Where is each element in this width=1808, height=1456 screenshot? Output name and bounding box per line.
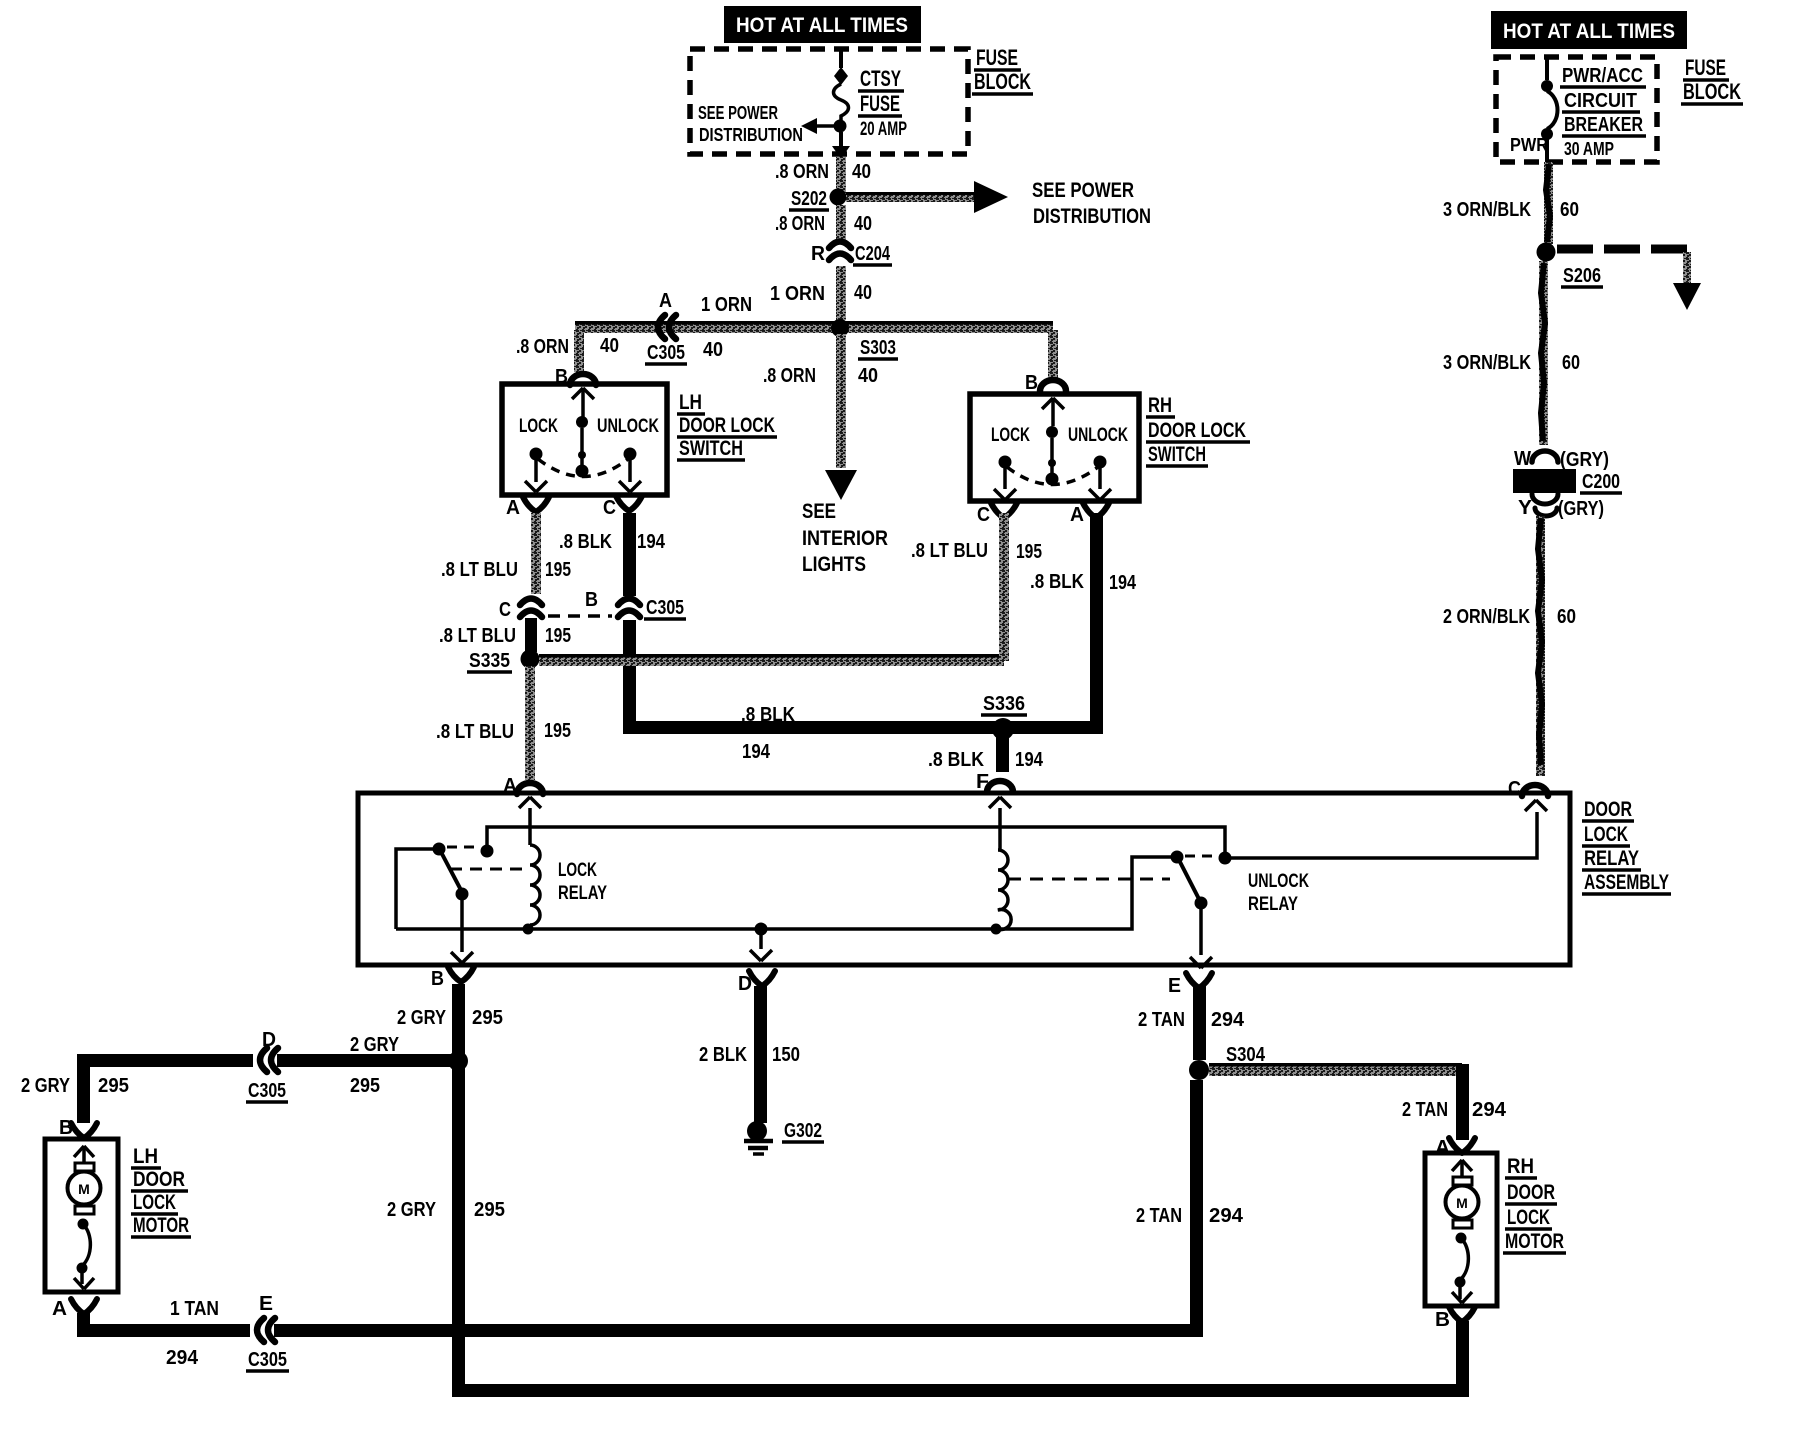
label: LH DOOR LOCK MOTOR bbox=[131, 1145, 191, 1237]
svg-text:40: 40 bbox=[600, 335, 619, 357]
svg-text:2 GRY: 2 GRY bbox=[21, 1075, 71, 1097]
label: RH DOOR LOCK MOTOR bbox=[1503, 1155, 1566, 1253]
fuse block (right) dashed enclosure bbox=[1496, 57, 1657, 162]
svg-text:C305: C305 bbox=[248, 1080, 286, 1102]
svg-text:FUSE: FUSE bbox=[1685, 55, 1726, 80]
svg-text:W: W bbox=[1514, 448, 1531, 470]
wire 2 ORN/BLK 60 (C200 to relay C) bbox=[1443, 516, 1576, 776]
arrow SEE INTERIOR LIGHTS bbox=[802, 470, 888, 576]
label: LOCK RELAY bbox=[558, 860, 607, 904]
svg-text:RH: RH bbox=[1148, 394, 1172, 417]
relay pin D internal arrow bbox=[750, 929, 772, 961]
svg-text:295: 295 bbox=[474, 1199, 505, 1221]
svg-text:B: B bbox=[1025, 372, 1038, 394]
svg-text:.8 LT BLU: .8 LT BLU bbox=[439, 625, 516, 647]
svg-text:295: 295 bbox=[350, 1075, 380, 1097]
connector C204 pin R bbox=[811, 242, 892, 266]
wire 1 TAN 294 (LH motor A to C305) bbox=[77, 1298, 1203, 1369]
label: PWR/ACC CIRCUIT BREAKER 30 AMP bbox=[1560, 65, 1646, 159]
lock relay dashed actuator link bbox=[450, 868, 523, 871]
svg-text:194: 194 bbox=[1015, 749, 1044, 771]
svg-text:C305: C305 bbox=[248, 1349, 287, 1371]
wire 2 GRY bottom run (to RH motor B) bbox=[452, 1384, 1469, 1397]
svg-text:RH: RH bbox=[1507, 1155, 1534, 1178]
svg-text:3 ORN/BLK: 3 ORN/BLK bbox=[1443, 199, 1531, 221]
label: LOCK (LH switch) bbox=[519, 416, 558, 437]
svg-text:295: 295 bbox=[98, 1075, 129, 1097]
wire 1 ORN 40 horizontal bus (C305-A to S303 to RH switch) bbox=[575, 290, 1053, 361]
svg-text:S335: S335 bbox=[469, 650, 510, 672]
relay pin E connector bbox=[1168, 973, 1212, 997]
svg-text:C: C bbox=[977, 504, 990, 526]
svg-text:G302: G302 bbox=[784, 1120, 822, 1142]
svg-text:2 TAN: 2 TAN bbox=[1402, 1099, 1448, 1121]
LH switch pin A connector bbox=[506, 497, 549, 519]
label: UNLOCK (RH switch) bbox=[1068, 425, 1128, 446]
connector C200 pin W bbox=[1514, 448, 1609, 471]
RH switch internal common arm bbox=[1042, 398, 1064, 486]
svg-text:30 AMP: 30 AMP bbox=[1564, 139, 1614, 159]
wire 2 GRY 295 (relay B down) bbox=[397, 984, 503, 1396]
svg-text:S202: S202 bbox=[791, 188, 827, 210]
svg-text:C: C bbox=[499, 599, 511, 621]
LH motor symbol bbox=[68, 1146, 101, 1289]
wire .8 BLK 194 (S336 to relay F) bbox=[928, 734, 1044, 772]
svg-text:2 BLK: 2 BLK bbox=[699, 1044, 747, 1066]
svg-text:(GRY): (GRY) bbox=[1558, 498, 1604, 520]
RH switch lock contact and arrow to pin C bbox=[994, 456, 1016, 501]
svg-text:B: B bbox=[585, 589, 598, 611]
svg-text:2 GRY: 2 GRY bbox=[350, 1034, 400, 1056]
wire 2 GRY 295 horizontal (to LH motor B) bbox=[77, 1034, 458, 1097]
connector C200 body bbox=[1513, 469, 1622, 493]
connector C305 pin A (on 1 ORN bus) bbox=[645, 315, 687, 364]
svg-text:2 GRY: 2 GRY bbox=[387, 1199, 437, 1221]
label: LH DOOR LOCK SWITCH bbox=[677, 391, 777, 460]
relay pin F connector bbox=[976, 771, 1013, 808]
svg-text:294: 294 bbox=[1209, 1205, 1244, 1227]
svg-text:SWITCH: SWITCH bbox=[1148, 443, 1206, 466]
wire .8 LT BLU 195 (C305 to S335) bbox=[439, 618, 571, 652]
LH door lock switch box bbox=[502, 384, 667, 495]
label: HOT AT ALL TIMES (left feed) bbox=[724, 6, 921, 43]
arrow from S206 to power distribution bbox=[1557, 249, 1701, 310]
svg-text:RELAY: RELAY bbox=[1584, 847, 1639, 870]
fuse block (left) dashed enclosure bbox=[690, 49, 968, 154]
wire 2 GRY 295 (drop to LH motor B) bbox=[21, 1060, 129, 1123]
svg-text:PWR: PWR bbox=[1510, 135, 1548, 155]
svg-text:MOTOR: MOTOR bbox=[1505, 1230, 1564, 1253]
svg-text:1 TAN: 1 TAN bbox=[170, 1298, 219, 1320]
label: FUSE BLOCK (left) bbox=[972, 45, 1033, 94]
wire .8 BLK 194 (RH switch A drop) bbox=[1030, 513, 1137, 734]
svg-text:HOT AT ALL TIMES: HOT AT ALL TIMES bbox=[736, 14, 908, 37]
wire .8 ORN 40 (S303 down to interior lights) bbox=[763, 334, 878, 468]
svg-text:RELAY: RELAY bbox=[558, 883, 607, 904]
LH switch lock contact and arrow to pin A bbox=[525, 448, 547, 493]
svg-text:195: 195 bbox=[545, 559, 571, 581]
svg-text:UNLOCK: UNLOCK bbox=[1248, 871, 1309, 892]
svg-text:DISTRIBUTION: DISTRIBUTION bbox=[699, 125, 803, 145]
svg-text:B: B bbox=[1435, 1309, 1450, 1331]
connector C305 pin E (tan) bbox=[246, 1293, 289, 1371]
svg-text:S336: S336 bbox=[983, 693, 1025, 715]
junction 2 GRY branch bbox=[448, 1051, 468, 1071]
svg-text:LOCK: LOCK bbox=[991, 425, 1030, 446]
fuse CTSY FUSE 20 AMP symbol bbox=[832, 51, 850, 159]
label: UNLOCK (LH switch) bbox=[597, 416, 659, 437]
svg-text:LH: LH bbox=[679, 391, 702, 414]
wire .8 ORN 40 (left drop to LH switch B) bbox=[516, 330, 619, 372]
C305 dashed connector tie line bbox=[548, 614, 612, 618]
connector C305 pin C (lt blu) bbox=[499, 599, 542, 622]
wire 2 TAN 294 (relay E to S304) bbox=[1138, 986, 1245, 1060]
svg-text:A: A bbox=[1070, 504, 1084, 526]
connector C200 pin Y bbox=[1518, 494, 1604, 520]
svg-text:SEE POWER: SEE POWER bbox=[1032, 179, 1134, 202]
label: PWR bbox=[1510, 135, 1548, 155]
svg-text:195: 195 bbox=[545, 625, 571, 647]
wire .8 LT BLU (S335 to RH switch C) horizontal bbox=[539, 654, 1004, 666]
svg-text:.8 ORN: .8 ORN bbox=[516, 336, 569, 358]
RH switch pin C connector bbox=[977, 503, 1017, 526]
label: UNLOCK RELAY bbox=[1248, 871, 1309, 915]
RH motor pin B connector bbox=[1435, 1307, 1475, 1331]
wire 3 ORN/BLK 60 (S206 to C200) bbox=[1443, 261, 1580, 445]
label: HOT AT ALL TIMES (right feed) bbox=[1491, 11, 1687, 49]
ground G302 bbox=[744, 1120, 824, 1154]
svg-text:40: 40 bbox=[854, 282, 872, 304]
svg-text:UNLOCK: UNLOCK bbox=[1068, 425, 1128, 446]
svg-text:RELAY: RELAY bbox=[1248, 894, 1298, 915]
LH motor pin B connector bbox=[59, 1117, 97, 1139]
relay pin C connector bbox=[1508, 778, 1548, 811]
svg-text:C305: C305 bbox=[647, 342, 685, 364]
svg-text:C200: C200 bbox=[1582, 471, 1620, 493]
label: DOOR LOCK RELAY ASSEMBLY bbox=[1582, 798, 1671, 894]
svg-text:C204: C204 bbox=[855, 243, 891, 265]
svg-text:1 ORN: 1 ORN bbox=[701, 294, 752, 316]
svg-text:3 ORN/BLK: 3 ORN/BLK bbox=[1443, 352, 1531, 374]
svg-text:60: 60 bbox=[1562, 352, 1580, 374]
connector C305 pin B (blk) bbox=[585, 589, 686, 620]
svg-text:40: 40 bbox=[703, 339, 723, 361]
wire .8 LT BLU 195 (S335 to relay A) bbox=[436, 666, 571, 780]
svg-text:BLOCK: BLOCK bbox=[974, 69, 1031, 94]
svg-text:1 ORN: 1 ORN bbox=[770, 283, 825, 305]
RH motor pin A connector bbox=[1435, 1137, 1475, 1159]
svg-text:150: 150 bbox=[772, 1044, 800, 1066]
svg-text:60: 60 bbox=[1557, 606, 1576, 628]
svg-text:A: A bbox=[659, 290, 672, 312]
svg-text:LOCK: LOCK bbox=[558, 860, 597, 881]
lock relay dashed contact gap bbox=[447, 846, 481, 849]
wire 2 TAN 294 (S304 down to 1 TAN run) bbox=[1136, 1080, 1244, 1337]
splice S206 bbox=[1537, 243, 1604, 288]
svg-text:LOCK: LOCK bbox=[519, 416, 558, 437]
svg-text:195: 195 bbox=[544, 720, 571, 742]
svg-text:MOTOR: MOTOR bbox=[133, 1214, 189, 1237]
unlock relay dashed contact gap bbox=[1185, 855, 1217, 858]
svg-text:DOOR LOCK: DOOR LOCK bbox=[679, 414, 775, 437]
LH motor pin A connector bbox=[52, 1298, 97, 1320]
svg-text:.8 ORN: .8 ORN bbox=[775, 161, 829, 183]
wire .8 ORN 40 (right drop to RH switch B) bbox=[1048, 330, 1058, 378]
svg-text:2 ORN/BLK: 2 ORN/BLK bbox=[1443, 606, 1530, 628]
label: FUSE BLOCK (right) bbox=[1681, 55, 1743, 104]
svg-text:FUSE: FUSE bbox=[860, 91, 900, 116]
lock relay coil (pin A to ground rail) bbox=[530, 808, 540, 929]
splice S304 bbox=[1189, 1044, 1267, 1080]
svg-text:294: 294 bbox=[1211, 1009, 1245, 1031]
svg-text:UNLOCK: UNLOCK bbox=[597, 416, 659, 437]
svg-text:ASSEMBLY: ASSEMBLY bbox=[1584, 871, 1669, 894]
svg-text:2 TAN: 2 TAN bbox=[1136, 1205, 1182, 1227]
unlock relay coil (pin F to ground rail) bbox=[998, 808, 1011, 930]
svg-text:DOOR: DOOR bbox=[1507, 1181, 1555, 1204]
svg-text:BLOCK: BLOCK bbox=[1683, 79, 1741, 104]
RH switch unlock contact and arrow to pin A bbox=[1089, 456, 1111, 501]
svg-text:C: C bbox=[603, 497, 616, 519]
svg-text:HOT AT ALL TIMES: HOT AT ALL TIMES bbox=[1503, 20, 1675, 43]
svg-text:LIGHTS: LIGHTS bbox=[802, 553, 866, 576]
RH door lock switch pin B connector bbox=[1025, 372, 1066, 394]
svg-text:.8 BLK: .8 BLK bbox=[741, 704, 795, 726]
svg-text:CTSY: CTSY bbox=[860, 66, 901, 91]
svg-text:.8 BLK: .8 BLK bbox=[1030, 571, 1084, 593]
svg-text:SEE: SEE bbox=[802, 500, 836, 523]
svg-text:60: 60 bbox=[1560, 199, 1579, 221]
relay internal ground rail bbox=[396, 849, 1171, 936]
LH switch pin C connector bbox=[603, 496, 642, 519]
svg-text:SEE POWER: SEE POWER bbox=[698, 103, 778, 123]
relay internal feed line (contacts to pin C) bbox=[481, 812, 1538, 865]
wire .8 ORN 40 (fuse to S202) bbox=[775, 157, 871, 193]
wire .8 BLK 194 horizontal (to S336) bbox=[623, 704, 1103, 763]
svg-text:40: 40 bbox=[854, 213, 872, 235]
LH switch internal common arm bbox=[572, 388, 594, 478]
label: SEE POWER DISTRIBUTION (in fuse block) bbox=[698, 103, 803, 145]
relay pin B connector bbox=[431, 967, 474, 990]
svg-text:194: 194 bbox=[742, 741, 771, 763]
svg-text:A: A bbox=[506, 497, 520, 519]
wire 2 BLK 150 (relay D to ground) bbox=[699, 986, 800, 1123]
svg-text:DOOR: DOOR bbox=[1584, 798, 1632, 821]
RH switch pin A connector bbox=[1070, 503, 1109, 526]
svg-text:.8 LT BLU: .8 LT BLU bbox=[436, 721, 514, 743]
svg-text:295: 295 bbox=[472, 1007, 503, 1029]
svg-text:M: M bbox=[1456, 1195, 1468, 1211]
svg-text:INTERIOR: INTERIOR bbox=[802, 527, 888, 550]
wire .8 ORN 40 (S202 to C204) bbox=[775, 205, 872, 243]
svg-text:S206: S206 bbox=[1563, 265, 1601, 287]
RH door lock motor box bbox=[1425, 1153, 1497, 1306]
svg-text:.8 ORN: .8 ORN bbox=[763, 365, 816, 387]
svg-text:S303: S303 bbox=[860, 337, 896, 359]
svg-text:R: R bbox=[811, 243, 826, 265]
svg-text:S304: S304 bbox=[1226, 1044, 1266, 1066]
splice S335 bbox=[467, 650, 540, 673]
door lock relay assembly box bbox=[358, 793, 1570, 965]
splice S336 bbox=[981, 693, 1027, 740]
label: LOCK (RH switch) bbox=[991, 425, 1030, 446]
svg-text:C305: C305 bbox=[646, 597, 684, 619]
svg-text:294: 294 bbox=[1472, 1099, 1507, 1121]
svg-text:LH: LH bbox=[133, 1145, 158, 1168]
LH switch dashed travel arc bbox=[538, 459, 628, 477]
svg-text:LOCK: LOCK bbox=[133, 1191, 176, 1214]
svg-text:SWITCH: SWITCH bbox=[679, 437, 743, 460]
label: CTSY FUSE 20 AMP bbox=[858, 66, 907, 140]
svg-text:194: 194 bbox=[1109, 572, 1137, 594]
LH door lock switch pin B connector bbox=[555, 366, 596, 388]
svg-text:DOOR: DOOR bbox=[133, 1168, 185, 1191]
wire arrow to see power distribution (right of S202) bbox=[846, 179, 1151, 228]
LH switch unlock contact and arrow to pin C bbox=[619, 448, 641, 493]
RH door lock switch box bbox=[970, 394, 1139, 501]
svg-text:194: 194 bbox=[637, 531, 666, 553]
wire 2 GRY 295 (junction down to bottom run) bbox=[387, 1199, 505, 1221]
svg-text:FUSE: FUSE bbox=[976, 45, 1018, 70]
svg-text:BREAKER: BREAKER bbox=[1564, 114, 1643, 136]
LH door lock motor box bbox=[45, 1139, 118, 1292]
splice S303 bbox=[831, 319, 898, 359]
unlock relay armature switch bbox=[1171, 851, 1213, 969]
svg-text:DOOR LOCK: DOOR LOCK bbox=[1148, 419, 1246, 442]
svg-text:E: E bbox=[1168, 975, 1181, 997]
relay pin D connector bbox=[738, 971, 775, 995]
wire 2 TAN 294 (S304 to RH motor A) bbox=[1209, 1063, 1507, 1140]
svg-text:A: A bbox=[52, 1298, 67, 1320]
svg-text:B: B bbox=[431, 968, 444, 990]
lock relay armature switch bbox=[433, 843, 474, 964]
connector C305 pin D (2 GRY) bbox=[246, 1029, 288, 1102]
wire .8 LT BLU 195 (LH switch A to C305) bbox=[441, 513, 571, 594]
svg-text:M: M bbox=[78, 1181, 90, 1197]
svg-text:20 AMP: 20 AMP bbox=[860, 119, 907, 140]
svg-text:40: 40 bbox=[852, 161, 871, 183]
relay pin A connector bbox=[503, 775, 543, 808]
label: RH DOOR LOCK SWITCH bbox=[1146, 394, 1250, 466]
svg-text:(GRY): (GRY) bbox=[1560, 449, 1609, 471]
RH switch dashed travel arc bbox=[1007, 467, 1098, 485]
wire .8 BLK 194 (LH switch C down) bbox=[559, 513, 666, 727]
svg-text:2 TAN: 2 TAN bbox=[1138, 1009, 1185, 1031]
svg-text:Y: Y bbox=[1518, 497, 1533, 519]
svg-text:195: 195 bbox=[1016, 541, 1042, 563]
svg-text:40: 40 bbox=[858, 365, 878, 387]
svg-text:LOCK: LOCK bbox=[1507, 1206, 1550, 1229]
wire 1 ORN 40 (C204 to S303) bbox=[770, 266, 872, 320]
svg-text:294: 294 bbox=[166, 1347, 199, 1369]
svg-text:LOCK: LOCK bbox=[1584, 823, 1628, 846]
RH motor symbol bbox=[1446, 1160, 1479, 1303]
splice S202 bbox=[789, 188, 847, 210]
wire .8 LT BLU 195 (RH switch C drop) bbox=[911, 513, 1042, 661]
svg-text:E: E bbox=[259, 1293, 273, 1315]
svg-text:.8 LT BLU: .8 LT BLU bbox=[441, 559, 518, 581]
arrow to see power distribution (left) bbox=[801, 118, 836, 134]
svg-text:.8 LT BLU: .8 LT BLU bbox=[911, 540, 988, 562]
unlock relay dashed actuator link bbox=[1008, 878, 1170, 881]
svg-text:.8 BLK: .8 BLK bbox=[559, 531, 612, 553]
svg-text:DISTRIBUTION: DISTRIBUTION bbox=[1033, 205, 1151, 228]
svg-text:CIRCUIT: CIRCUIT bbox=[1564, 90, 1637, 112]
svg-text:.8 BLK: .8 BLK bbox=[928, 749, 984, 771]
wire (RH motor B to bottom run) bbox=[1456, 1321, 1469, 1391]
svg-text:PWR/ACC: PWR/ACC bbox=[1562, 65, 1643, 87]
PWR/ACC circuit breaker symbol bbox=[1541, 59, 1558, 162]
svg-text:.8 ORN: .8 ORN bbox=[775, 213, 825, 235]
wire 3 ORN/BLK 60 (breaker to S206) bbox=[1443, 162, 1579, 244]
svg-text:2 GRY: 2 GRY bbox=[397, 1007, 447, 1029]
